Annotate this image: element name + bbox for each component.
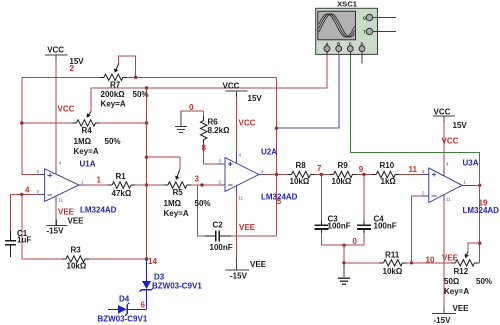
svg-text:D4: D4: [119, 295, 130, 304]
svg-text:100nF: 100nF: [210, 243, 233, 252]
svg-text:11: 11: [59, 198, 64, 203]
svg-text:U3A: U3A: [463, 159, 479, 168]
svg-text:4: 4: [59, 161, 62, 166]
svg-text:10kΩ: 10kΩ: [332, 177, 352, 186]
svg-text:VCC: VCC: [239, 119, 256, 128]
svg-text:8: 8: [202, 144, 207, 153]
svg-text:50%: 50%: [105, 137, 121, 146]
svg-text:7: 7: [317, 164, 322, 173]
svg-text:15V: 15V: [453, 121, 468, 130]
svg-text:11: 11: [409, 165, 418, 174]
svg-text:47kΩ: 47kΩ: [112, 189, 132, 198]
svg-text:50%: 50%: [476, 277, 492, 286]
svg-text:R8: R8: [296, 161, 307, 170]
svg-text:4: 4: [25, 186, 30, 195]
svg-text:2: 2: [219, 180, 222, 185]
svg-text:-15V: -15V: [230, 272, 248, 281]
svg-text:VEE: VEE: [58, 208, 75, 217]
svg-text:1: 1: [81, 180, 84, 185]
svg-text:3: 3: [37, 169, 40, 174]
svg-text:Key=A: Key=A: [74, 147, 99, 156]
svg-text:D: D: [360, 41, 363, 46]
svg-text:D3: D3: [154, 273, 165, 282]
svg-text:VCC: VCC: [442, 137, 459, 146]
svg-text:50Ω: 50Ω: [444, 277, 460, 286]
svg-text:B: B: [337, 41, 340, 46]
svg-text:8.2kΩ: 8.2kΩ: [208, 126, 231, 135]
svg-text:Key=A: Key=A: [101, 100, 126, 109]
svg-text:2: 2: [70, 64, 75, 73]
svg-text:1uF: 1uF: [17, 235, 31, 244]
svg-text:VCC: VCC: [58, 105, 75, 114]
svg-text:BZW03-C9V1: BZW03-C9V1: [152, 282, 202, 291]
svg-text:VCC: VCC: [223, 81, 240, 90]
svg-text:10kΩ: 10kΩ: [67, 262, 87, 271]
svg-text:R12: R12: [454, 267, 469, 276]
svg-text:6: 6: [141, 301, 146, 310]
svg-text:Key=A: Key=A: [164, 209, 189, 218]
svg-text:1: 1: [464, 180, 467, 185]
svg-text:U2A: U2A: [261, 148, 277, 157]
svg-text:50%: 50%: [133, 90, 149, 99]
svg-text:3: 3: [195, 175, 200, 184]
svg-text:BZW03-C9V1: BZW03-C9V1: [98, 315, 148, 324]
svg-text:R7: R7: [110, 81, 121, 90]
svg-text:11: 11: [446, 197, 451, 202]
svg-text:100nF: 100nF: [328, 222, 351, 231]
svg-text:100nF: 100nF: [374, 222, 397, 231]
svg-text:4: 4: [239, 153, 242, 158]
svg-text:T: T: [363, 29, 366, 34]
svg-text:-15V: -15V: [47, 227, 65, 236]
svg-text:VEE: VEE: [68, 217, 85, 226]
svg-text:14: 14: [148, 257, 157, 266]
svg-text:2: 2: [37, 189, 40, 194]
svg-text:XSC1: XSC1: [337, 0, 358, 9]
svg-text:R4: R4: [82, 126, 93, 135]
svg-text:VEE: VEE: [442, 254, 459, 263]
svg-text:VCC: VCC: [434, 108, 451, 117]
svg-text:1: 1: [261, 169, 264, 174]
svg-text:1kΩ: 1kΩ: [381, 177, 397, 186]
svg-text:2: 2: [422, 191, 425, 196]
svg-text:50%: 50%: [195, 199, 211, 208]
svg-text:1: 1: [97, 176, 102, 185]
svg-text:G: G: [363, 15, 366, 20]
svg-text:R6: R6: [208, 117, 219, 126]
svg-text:R3: R3: [71, 246, 82, 255]
svg-text:9: 9: [359, 165, 364, 174]
svg-text:VEE: VEE: [453, 304, 470, 313]
svg-text:10kΩ: 10kΩ: [290, 177, 310, 186]
svg-text:LM324AD: LM324AD: [80, 206, 117, 215]
svg-text:LM324AD: LM324AD: [261, 193, 298, 202]
svg-text:C2: C2: [213, 221, 224, 230]
svg-text:15V: 15V: [248, 94, 263, 103]
svg-text:0: 0: [189, 103, 194, 112]
svg-text:R10: R10: [380, 161, 395, 170]
svg-text:3: 3: [422, 169, 425, 174]
svg-text:11: 11: [239, 196, 244, 201]
svg-text:VEE: VEE: [250, 260, 267, 269]
svg-text:10kΩ: 10kΩ: [383, 267, 403, 276]
svg-text:VEE: VEE: [239, 223, 256, 232]
svg-text:200kΩ: 200kΩ: [101, 90, 126, 99]
svg-text:1MΩ: 1MΩ: [164, 199, 182, 208]
svg-text:C: C: [349, 41, 352, 46]
svg-text:-15V: -15V: [434, 316, 452, 325]
svg-text:1MΩ: 1MΩ: [74, 137, 92, 146]
svg-text:Key=A: Key=A: [444, 287, 469, 296]
svg-text:4: 4: [446, 162, 449, 167]
svg-text:0: 0: [353, 237, 358, 246]
svg-text:3: 3: [219, 159, 222, 164]
svg-text:A: A: [325, 41, 328, 46]
svg-text:LM324AD: LM324AD: [463, 206, 500, 215]
svg-text:U1A: U1A: [80, 160, 96, 169]
svg-text:10: 10: [426, 256, 435, 265]
svg-text:R5: R5: [173, 188, 184, 197]
svg-text:R9: R9: [338, 161, 349, 170]
svg-text:VCC: VCC: [47, 45, 64, 54]
svg-text:R1: R1: [116, 172, 127, 181]
svg-text:R11: R11: [385, 250, 400, 259]
